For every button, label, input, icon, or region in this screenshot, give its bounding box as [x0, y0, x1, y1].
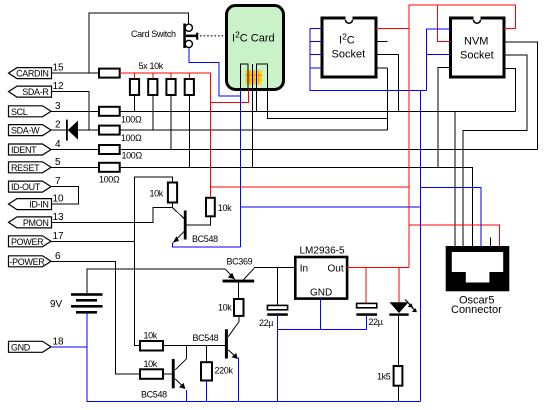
connector label RESET pin 5 [9, 157, 62, 173]
resistor R11 10k (Q1 base from +5V) [187, 198, 233, 225]
svg-text:12: 12 [53, 81, 65, 92]
wire battery + to BC369 emitter [87, 269, 225, 293]
svg-text:Socket: Socket [332, 49, 366, 61]
wire red branch to card pin B [210, 90, 248, 103]
resistor R15 220k [201, 346, 233, 402]
wire Oscar pin 1 riser from SCL [454, 111, 456, 246]
wire card pin D down to SCL [256, 90, 258, 112]
wire blue branch to Oscar pin 4 [420, 188, 481, 247]
svg-text:2: 2 [55, 120, 61, 131]
svg-text:17: 17 [53, 231, 65, 242]
wire SCL line [51, 110, 515, 112]
svg-text:BC548: BC548 [193, 333, 219, 343]
svg-text:10: 10 [53, 194, 65, 205]
svg-text:POWER: POWER [11, 237, 44, 247]
wire red branch to main +5V vertical [210, 186, 409, 188]
resistor R9 100ohm on RESET [99, 163, 120, 185]
wire top loop from CARDIN to card switch [89, 13, 189, 73]
transistor Q3 BC548 (lower) [141, 346, 187, 400]
wire POWER vertical rail to 10k tops [135, 177, 173, 346]
wire PMON to BC548 Q1 collector node [51, 207, 172, 222]
svg-text:GND: GND [310, 288, 332, 299]
diode D1 [66, 120, 78, 141]
svg-text:18: 18 [53, 336, 65, 347]
svg-text:4: 4 [55, 139, 61, 150]
I2C Card U3 [227, 6, 284, 90]
wire LM2936 GND (blue) [320, 299, 322, 330]
svg-text:7: 7 [55, 176, 61, 187]
capacitor C1 22u [259, 268, 288, 402]
svg-text:SCL: SCL [11, 107, 28, 117]
wire ID-OUT to ID-IN jumper [51, 187, 79, 205]
capacitor C2 22u [356, 268, 382, 330]
resistor R12 1k5 [377, 366, 402, 402]
svg-text:220k: 220k [215, 365, 234, 375]
svg-text:15: 15 [53, 63, 65, 74]
svg-text:6: 6 [55, 251, 61, 262]
svg-text:BC369: BC369 [227, 256, 253, 266]
resistor R3 10k pull-up [148, 79, 157, 130]
svg-text:100Ω: 100Ω [99, 175, 120, 185]
connector label IDENT pin 4 [9, 139, 62, 155]
svg-text:CARDIN: CARDIN [16, 69, 48, 79]
svg-text:SDA-W: SDA-W [11, 126, 40, 136]
svg-text:ID-IN: ID-IN [29, 200, 48, 210]
wire SDA-W / SDA line [51, 129, 388, 131]
svg-text:5x 10k: 5x 10k [139, 61, 164, 71]
transistor Q2 BC369 [223, 256, 255, 299]
I2C socket right pin 1 red stub [376, 28, 409, 30]
connector label GND pin 18 [9, 336, 65, 352]
wire RESET line to Oscar pin 3 [51, 167, 473, 246]
NVM socket U2 [451, 16, 505, 78]
connector label ID-OUT pin 7 [9, 176, 62, 192]
connector label SDA-R pin 12 [9, 81, 65, 97]
svg-text:-POWER: -POWER [10, 257, 46, 267]
resistor R7 100ohm on SDA [99, 126, 142, 143]
svg-text:I2C: I2C [339, 32, 355, 47]
wire POWER to pull-up vertical [51, 240, 135, 242]
svg-text:10k: 10k [144, 331, 158, 341]
wire Q1 emitter to GND (blue) [172, 243, 240, 247]
wire card pin A branch to GND vertical [241, 206, 421, 208]
card contact brackets and pin wires [241, 64, 268, 90]
wire card pin C down to RESET [252, 90, 254, 168]
wire -POWER down to lower 10k [51, 261, 140, 374]
wire card pin A blue down [240, 90, 242, 247]
resistor R5 10k pull-up [185, 79, 194, 167]
voltage regulator U4 LM2936-5 [295, 245, 347, 298]
I2C socket right pin 4 stub to SDA riser [376, 67, 388, 69]
resistor R4 10k pull-up [166, 79, 175, 150]
Oscar5 connector J1 [446, 238, 510, 317]
connector label POWER pin 17 [9, 231, 65, 247]
wire IDENT line [51, 149, 538, 151]
wire SDA riser to I2C socket [387, 68, 389, 130]
svg-text:Socket: Socket [460, 50, 494, 62]
svg-text:Connector: Connector [451, 304, 502, 316]
svg-text:In: In [300, 264, 308, 275]
dotted actuator line to card [200, 35, 227, 37]
resistor R2 10k pull-up [130, 79, 139, 111]
wire SCL riser to I2C socket [398, 55, 400, 112]
svg-text:5: 5 [55, 157, 61, 168]
svg-text:9V: 9V [50, 299, 63, 310]
svg-text:10k: 10k [144, 359, 158, 369]
wire NVM right pin 4 to SCL [504, 69, 515, 112]
svg-text:22µ: 22µ [369, 317, 383, 327]
svg-text:SDA-R: SDA-R [22, 87, 49, 97]
resistor R10 10k (Q1 collector pull-up) [150, 183, 178, 208]
I2C socket U1 [322, 16, 376, 78]
wire LM2936 Out +5V (red) [347, 267, 409, 269]
svg-text:IDENT: IDENT [11, 145, 37, 155]
svg-text:22µ: 22µ [259, 318, 273, 328]
svg-text:BC548: BC548 [192, 234, 218, 244]
transistor Q1 BC548 [172, 207, 218, 244]
transistor Q4 BC548 (driver) [193, 316, 239, 359]
wire red drop to NVM left pin 2 [438, 5, 451, 42]
wire red +5V bus over pull-ups [120, 73, 211, 198]
wire card pin E to SDA riser [268, 90, 388, 119]
svg-text:NVM: NVM [464, 36, 488, 48]
svg-text:100Ω: 100Ω [122, 150, 143, 160]
wire BC369 collector to LM2936 In [254, 267, 295, 269]
wire LED cathode to 1k5 [398, 316, 400, 366]
svg-text:RESET: RESET [11, 163, 40, 173]
resistor R13 10k (base feed Q4 from POWER) [140, 331, 163, 351]
wire GND label to battery minus (blue) [51, 346, 87, 348]
resistor R8 100ohm on IDENT [99, 145, 142, 160]
wire red branch to Oscar connector [409, 225, 500, 246]
svg-text:BC548: BC548 [141, 389, 167, 399]
wire SDA-R to diode junction [51, 92, 89, 131]
wire battery - to GND bus (blue) [87, 314, 421, 402]
wire Q4 emitter to GND bus (blue) [237, 358, 239, 402]
battery BT1 9V [50, 293, 103, 313]
connector label SCL pin 3 [9, 101, 62, 117]
svg-text:GND: GND [11, 342, 31, 352]
wire blue NVM left pins riser [427, 29, 451, 91]
svg-text:Out: Out [328, 264, 344, 275]
svg-text:10k: 10k [218, 302, 232, 312]
wire CARDIN to R [51, 72, 99, 74]
wire main blue GND vertical [419, 91, 421, 402]
wire NVM right pin 2 to IDENT [504, 42, 538, 149]
resistor R6 100ohm on SCL [99, 107, 142, 125]
svg-text:PMON: PMON [23, 218, 49, 228]
resistor R16 10k (BC369 base) [218, 299, 244, 316]
svg-text:Card Switch: Card Switch [131, 29, 176, 39]
card switch SW1 [183, 24, 198, 49]
resistor R14 10k (base feed Q3 from -POWER) [140, 359, 172, 379]
card chip pad [245, 70, 262, 84]
I2C socket right pin 2 stub NC [376, 41, 388, 43]
svg-text:13: 13 [53, 212, 65, 223]
wire red top rail [409, 5, 515, 268]
I2C socket right pin 3 stub to SCL riser [376, 54, 399, 56]
svg-text:10k: 10k [150, 188, 164, 198]
connector label CARDIN pin 15 [9, 63, 65, 79]
svg-text:ID-OUT: ID-OUT [11, 182, 41, 192]
connector label ID-IN pin 10 [9, 194, 65, 210]
wire blue gnd link caps [278, 328, 367, 330]
wire NVM left pin 4 to RESET [438, 68, 451, 168]
svg-text:LM2936-5: LM2936-5 [300, 245, 345, 256]
svg-text:3: 3 [55, 101, 61, 112]
wire Q4 base line [163, 345, 225, 347]
LED D2 [389, 268, 417, 316]
svg-text:100Ω: 100Ω [121, 114, 142, 124]
svg-text:100Ω: 100Ω [121, 133, 142, 143]
I2C socket left pin stubs (blue bus) [310, 29, 426, 91]
wire NVM right pin 3 to Oscar pin 2 [463, 55, 527, 246]
wire switch bottom to card pin A (blue) [189, 48, 241, 97]
wire Q3 emitter to GND bus (blue) [186, 390, 188, 402]
svg-text:1k5: 1k5 [377, 371, 391, 381]
connector label PMON pin 13 [9, 212, 65, 228]
connector label -POWER pin 6 [9, 251, 62, 267]
resistor R1 100ohm on CARDIN (part of 5x 10k) [99, 69, 120, 78]
svg-text:10k: 10k [218, 203, 232, 213]
connector label SDA-W pin 2 [9, 120, 62, 136]
